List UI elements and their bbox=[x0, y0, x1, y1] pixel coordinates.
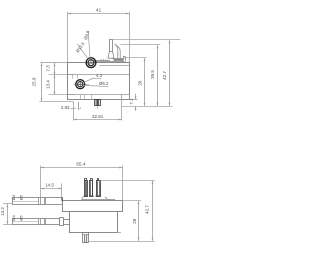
svg-text:13.4: 13.4 bbox=[46, 80, 51, 89]
svg-text:42.7: 42.7 bbox=[162, 71, 167, 80]
svg-text:32.81: 32.81 bbox=[92, 114, 104, 119]
svg-text:41: 41 bbox=[96, 8, 102, 14]
svg-text:Ø6.2: Ø6.2 bbox=[99, 81, 109, 86]
svg-text:42.7: 42.7 bbox=[145, 205, 150, 214]
svg-text:Ø5: Ø5 bbox=[18, 194, 23, 200]
svg-text:4.3: 4.3 bbox=[96, 73, 103, 78]
svg-text:7.1: 7.1 bbox=[129, 98, 134, 105]
svg-text:13.2: 13.2 bbox=[0, 207, 5, 216]
svg-text:Ø4: Ø4 bbox=[11, 215, 16, 221]
svg-text:7.3: 7.3 bbox=[45, 65, 50, 72]
svg-text:Ø13.5: Ø13.5 bbox=[75, 41, 86, 54]
svg-text:25.9: 25.9 bbox=[32, 77, 37, 86]
svg-text:Ø5: Ø5 bbox=[18, 215, 23, 221]
svg-text:28: 28 bbox=[132, 218, 137, 224]
svg-text:Ø4.6: Ø4.6 bbox=[83, 29, 90, 40]
svg-text:2.83: 2.83 bbox=[61, 105, 70, 110]
svg-text:14.5: 14.5 bbox=[45, 182, 54, 187]
svg-text:39.5: 39.5 bbox=[150, 70, 155, 79]
svg-text:55.4: 55.4 bbox=[76, 162, 86, 168]
svg-text:Ø4: Ø4 bbox=[11, 194, 16, 200]
svg-text:26: 26 bbox=[138, 80, 143, 86]
